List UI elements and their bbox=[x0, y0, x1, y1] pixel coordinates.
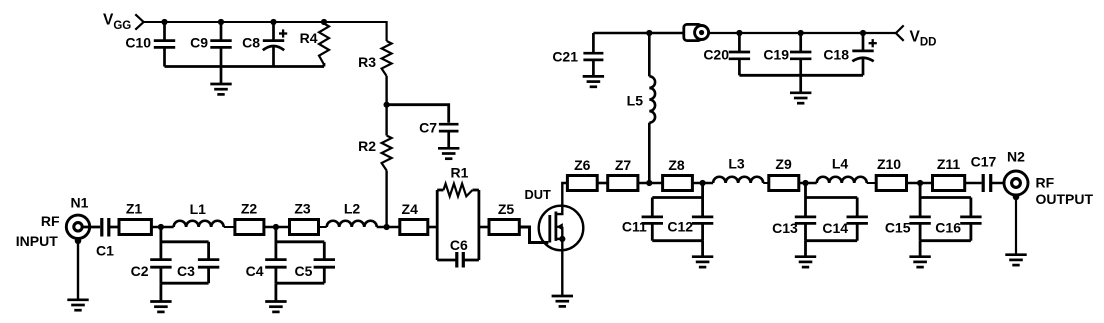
wire Z2 to Z3 bbox=[264, 226, 290, 229]
svg-text:C8: C8 bbox=[242, 35, 260, 51]
node N1 shell bbox=[75, 238, 82, 245]
resistor R1 bbox=[437, 165, 479, 197]
transistor DUT circle bbox=[539, 206, 584, 251]
element Z6 bbox=[567, 157, 597, 191]
node N2 shell bbox=[1013, 194, 1020, 201]
svg-text:C3: C3 bbox=[177, 263, 195, 279]
wire N2 to ground bbox=[1015, 197, 1017, 255]
wire R1C6 to Z5 bbox=[479, 226, 489, 229]
wire L3 to Z9 bbox=[763, 182, 769, 184]
svg-text:C11: C11 bbox=[622, 219, 647, 235]
wire VDD bottom bus bbox=[739, 74, 863, 77]
transistor DUT source lead bbox=[556, 238, 562, 240]
ground of N2 bbox=[1005, 255, 1026, 265]
svg-text:Z7: Z7 bbox=[615, 157, 632, 173]
node C19/rail bbox=[798, 30, 804, 36]
wire Z8 to L3 bbox=[692, 182, 713, 185]
wire VDD node to L5 bbox=[648, 33, 651, 76]
resistor R2 bbox=[358, 136, 392, 171]
element Z4 bbox=[400, 201, 428, 235]
node R3/R2/C7 bbox=[384, 102, 390, 108]
VGG input arrow bbox=[135, 14, 143, 29]
svg-text:C10: C10 bbox=[125, 35, 151, 51]
svg-text:Z9: Z9 bbox=[775, 156, 792, 172]
wire Z5 to DUT gate bbox=[519, 227, 548, 243]
capacitor C21 bbox=[552, 33, 603, 76]
node Z1/C2 junction bbox=[158, 224, 164, 230]
svg-text:C6: C6 bbox=[450, 237, 468, 253]
svg-text:C14: C14 bbox=[822, 220, 848, 236]
capacitor C1 (series) bbox=[96, 218, 114, 259]
node C9/rail junction bbox=[218, 19, 224, 25]
transistor DUT gate bar bbox=[548, 215, 551, 243]
node R4/rail junction bbox=[321, 19, 327, 25]
svg-text:DUT: DUT bbox=[525, 187, 551, 202]
capacitor C4 and C5 shunt pair bbox=[274, 227, 277, 260]
capacitor C8 (polarized) bbox=[242, 22, 284, 67]
inductor L2 bbox=[327, 201, 377, 228]
capacitor C2 and C3 shunt pair bbox=[159, 227, 162, 260]
transistor DUT channel bar bbox=[555, 212, 558, 241]
capacitor C10 bbox=[125, 22, 175, 67]
capacitor C9 bbox=[190, 22, 232, 67]
svg-text:C1: C1 bbox=[96, 243, 114, 259]
wire Z6 to Z7 bbox=[597, 182, 608, 185]
element Z9 bbox=[769, 156, 799, 191]
svg-text:R3: R3 bbox=[358, 54, 376, 70]
wire Z10 to Z11 bbox=[907, 182, 933, 185]
R1/C6 parallel frame right bbox=[477, 190, 480, 260]
element Z1 bbox=[119, 201, 151, 235]
svg-text:C9: C9 bbox=[190, 35, 208, 51]
node C8/rail junction bbox=[270, 19, 276, 25]
node C13 junction bbox=[802, 180, 808, 186]
connector N2 bbox=[1004, 149, 1028, 196]
svg-text:R2: R2 bbox=[358, 138, 376, 154]
svg-text:C17: C17 bbox=[971, 154, 997, 170]
svg-text:Z8: Z8 bbox=[668, 157, 685, 173]
node C10/rail junction bbox=[161, 19, 167, 25]
R1/C6 parallel frame left bbox=[436, 190, 439, 260]
svg-text:Z5: Z5 bbox=[498, 201, 515, 217]
svg-text:C21: C21 bbox=[552, 49, 578, 65]
svg-text:C2: C2 bbox=[131, 263, 149, 279]
wire Z11 to C17 bbox=[965, 182, 982, 185]
element Z8 bbox=[663, 157, 693, 191]
capacitor C7 bbox=[419, 120, 458, 149]
capacitor C15 and C16 shunt pair bbox=[919, 183, 922, 217]
capacitor C11 and C12 shunt pair bbox=[701, 183, 704, 217]
wire R2 to main line bbox=[385, 171, 387, 228]
svg-text:Z10: Z10 bbox=[877, 156, 901, 172]
svg-text:R4: R4 bbox=[300, 30, 318, 46]
svg-text:Z3: Z3 bbox=[294, 201, 311, 217]
node C15 junction bbox=[917, 180, 923, 186]
inductor L4 bbox=[817, 156, 867, 184]
svg-text:C15: C15 bbox=[885, 219, 911, 235]
node Z2/C4 junction bbox=[273, 224, 279, 230]
inductor L5 bbox=[627, 76, 655, 122]
resistor R3 bbox=[358, 41, 392, 76]
wire L1 to Z2 bbox=[224, 226, 235, 228]
wire N1 to ground bbox=[77, 241, 79, 300]
capacitor C18 (polarized) bbox=[823, 33, 873, 75]
svg-text:C16: C16 bbox=[935, 219, 961, 235]
svg-text:L5: L5 bbox=[627, 93, 644, 109]
element Z3 bbox=[290, 201, 319, 235]
element Z11 bbox=[933, 156, 965, 191]
ground of N1 bbox=[67, 300, 88, 310]
node C18/rail bbox=[860, 30, 866, 36]
capacitor C13 and C14 shunt pair bbox=[804, 183, 807, 217]
element Z5 bbox=[489, 201, 519, 235]
node DUT source bbox=[559, 236, 565, 242]
inductor L1 bbox=[174, 201, 224, 227]
svg-text:L2: L2 bbox=[344, 201, 361, 217]
svg-text:C12: C12 bbox=[667, 219, 693, 235]
node L5/VDD rail bbox=[646, 30, 652, 36]
node C12 junction bbox=[700, 180, 706, 186]
ground of VGG decoupling bbox=[210, 67, 231, 95]
svg-text:C20: C20 bbox=[703, 47, 729, 63]
capacitor C17 (series) bbox=[971, 154, 997, 193]
plus sign of C18 bbox=[869, 39, 877, 47]
plus sign of C8 bbox=[279, 29, 287, 37]
wire L5 to Z row bbox=[648, 123, 651, 183]
svg-text:L4: L4 bbox=[832, 156, 849, 172]
connector N1 bbox=[66, 195, 89, 239]
svg-text:Z1: Z1 bbox=[126, 201, 143, 217]
svg-text:INPUT: INPUT bbox=[16, 233, 58, 249]
wire Z7 to Z8 bbox=[638, 182, 663, 185]
svg-text:C19: C19 bbox=[763, 47, 789, 63]
resistor R4 bbox=[300, 24, 329, 67]
node L5 junction bbox=[646, 180, 652, 186]
svg-text:Z2: Z2 bbox=[241, 201, 258, 217]
transistor DUT drain lead bbox=[556, 183, 568, 214]
element Z10 bbox=[876, 156, 906, 191]
element Z2 bbox=[235, 201, 264, 235]
svg-text:C18: C18 bbox=[823, 47, 849, 63]
ground of C7 bbox=[438, 148, 459, 158]
svg-text:RF: RF bbox=[41, 213, 60, 229]
VDD input arrow bbox=[896, 25, 904, 40]
ground of VDD decoupling bbox=[790, 75, 811, 103]
wire Z3 to L2 bbox=[319, 226, 327, 228]
svg-text:C7: C7 bbox=[419, 120, 437, 136]
svg-text:Z6: Z6 bbox=[574, 157, 591, 173]
wire VGG bottom bus bbox=[165, 65, 325, 68]
feedthrough FL1 bbox=[684, 24, 709, 40]
ground of DUT source bbox=[552, 296, 573, 306]
transistor DUT bulk arrow bbox=[557, 226, 563, 228]
ground of C21 bbox=[583, 76, 604, 86]
wire L4 to Z10 bbox=[867, 182, 877, 184]
wire L2 to Z4 bbox=[377, 226, 400, 229]
capacitor C19 bbox=[763, 33, 811, 75]
svg-text:L1: L1 bbox=[190, 201, 207, 217]
svg-text:N1: N1 bbox=[71, 195, 89, 211]
wire C1 to Z1 bbox=[109, 226, 119, 229]
wire VGG rail bbox=[144, 21, 387, 23]
wire Z1 to L1 bbox=[151, 226, 173, 229]
svg-text:Z4: Z4 bbox=[402, 201, 419, 217]
wire Z9 to L4 bbox=[799, 182, 817, 185]
wire C17 to N2 bbox=[991, 182, 1012, 185]
svg-text:N2: N2 bbox=[1007, 149, 1025, 165]
wire node to C7 bbox=[387, 105, 449, 123]
svg-text:OUTPUT: OUTPUT bbox=[1036, 191, 1094, 207]
svg-text:C5: C5 bbox=[295, 263, 313, 279]
capacitor C20 bbox=[703, 33, 750, 75]
element Z7 bbox=[608, 157, 638, 191]
svg-text:R1: R1 bbox=[451, 165, 469, 181]
svg-text:C13: C13 bbox=[772, 220, 798, 236]
svg-text:L3: L3 bbox=[728, 156, 745, 172]
wire Z4 to R1C6 bbox=[428, 226, 437, 229]
svg-text:Z11: Z11 bbox=[937, 156, 961, 172]
wire N1 to C1 bbox=[81, 226, 100, 229]
wire VDD rail right part bbox=[704, 32, 896, 34]
wire R3 to node bbox=[385, 76, 387, 136]
svg-text:RF: RF bbox=[1036, 175, 1055, 191]
svg-text:C4: C4 bbox=[246, 263, 264, 279]
inductor L3 bbox=[713, 156, 763, 184]
wire rail corner down to R3 bbox=[386, 21, 388, 41]
node R2/main line bbox=[384, 224, 390, 230]
wire VDD rail left part bbox=[593, 32, 683, 35]
capacitor C6 bbox=[437, 237, 479, 268]
node C20/rail bbox=[736, 30, 742, 36]
